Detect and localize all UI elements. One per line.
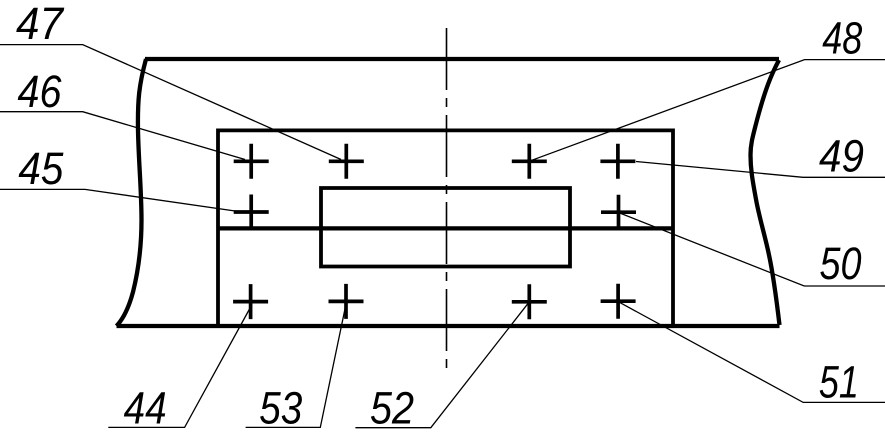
svg-text:48: 48 <box>822 12 863 63</box>
svg-text:47: 47 <box>16 0 65 49</box>
svg-text:51: 51 <box>819 357 859 408</box>
svg-text:53: 53 <box>259 382 302 433</box>
svg-text:45: 45 <box>18 143 64 194</box>
svg-text:50: 50 <box>820 238 862 289</box>
svg-text:44: 44 <box>124 382 167 433</box>
svg-text:52: 52 <box>370 383 414 434</box>
svg-text:46: 46 <box>18 66 63 117</box>
svg-text:49: 49 <box>819 131 864 182</box>
